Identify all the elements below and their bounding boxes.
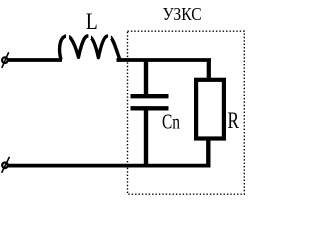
terminal top-left xyxy=(2,52,9,68)
svg-text:Cn: Cn xyxy=(162,109,180,133)
wire capacitor top lead xyxy=(144,60,148,95)
inductor L xyxy=(60,33,120,59)
wire capacitor bottom lead xyxy=(144,109,148,167)
wire bottom xyxy=(8,164,211,168)
svg-text:УЗКС: УЗКС xyxy=(163,4,202,24)
wire top terminal to inductor xyxy=(8,58,62,62)
capacitor Cn bottom plate xyxy=(131,106,169,110)
terminal bottom-left xyxy=(2,157,10,173)
capacitor Cn top plate xyxy=(131,94,169,98)
wire inductor to box xyxy=(117,58,212,62)
wire resistor bottom lead xyxy=(206,139,210,167)
svg-text:L: L xyxy=(86,9,98,34)
dashed box УЗКС unit xyxy=(128,31,245,194)
wire resistor top lead xyxy=(207,60,211,79)
svg-text:R: R xyxy=(228,108,240,133)
resistor R body xyxy=(196,80,224,139)
